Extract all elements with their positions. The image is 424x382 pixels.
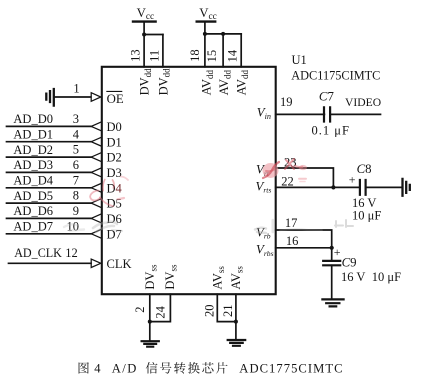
capacitor C9 (polarized) <box>331 248 333 260</box>
svg-text:OE: OE <box>107 92 124 106</box>
output arrow D7 <box>91 230 101 239</box>
ground G2 <box>142 341 159 347</box>
svg-text:C8: C8 <box>357 162 372 176</box>
wire pin 19 Vin <box>276 113 325 115</box>
svg-text:18: 18 <box>188 49 202 62</box>
figure caption <box>79 362 344 376</box>
svg-text:AVdd: AVdd <box>200 69 215 95</box>
svg-text:DVss: DVss <box>163 264 178 290</box>
junction <box>234 320 238 324</box>
svg-text:DVdd: DVdd <box>137 68 152 96</box>
svg-text:24: 24 <box>153 305 167 318</box>
svg-text:DVdd: DVdd <box>156 68 171 96</box>
svg-text:0.1 μF: 0.1 μF <box>312 124 350 138</box>
wire VCC branch to pins 15,14 <box>205 33 241 35</box>
svg-text:13: 13 <box>129 49 143 62</box>
svg-text:AD_D6: AD_D6 <box>13 204 53 218</box>
capacitor C7 <box>324 107 330 121</box>
svg-text:AD_D4: AD_D4 <box>13 174 53 188</box>
svg-text:A/D: A/D <box>112 362 138 376</box>
wire pin 20 <box>217 294 236 321</box>
junction <box>331 185 335 189</box>
svg-text:4: 4 <box>94 362 101 376</box>
output arrow D3 <box>91 168 101 177</box>
wire AD_D2 <box>7 156 92 158</box>
svg-text:9: 9 <box>73 204 79 218</box>
svg-text:D6: D6 <box>107 212 122 226</box>
output arrow D1 <box>91 137 101 146</box>
svg-text:ADC1175CIMTC: ADC1175CIMTC <box>291 69 380 83</box>
output arrow D5 <box>91 199 101 208</box>
svg-text:Vcc: Vcc <box>199 6 217 22</box>
svg-text:AD_D2: AD_D2 <box>13 143 53 157</box>
junction <box>142 33 146 37</box>
OE input buffer arrow <box>91 93 101 102</box>
ground G3 <box>228 340 246 346</box>
svg-text:7: 7 <box>73 173 79 187</box>
svg-text:Vrts: Vrts <box>256 179 272 194</box>
wire pin 18 <box>204 34 206 67</box>
svg-text:D2: D2 <box>107 151 122 165</box>
svg-text:16 V: 16 V <box>341 270 365 284</box>
wire C8 to ground <box>366 186 402 188</box>
junction <box>330 246 334 250</box>
wire C9 to ground <box>331 265 333 298</box>
wire AD_D4 <box>7 187 92 189</box>
svg-text:AVdd: AVdd <box>235 69 250 95</box>
wire pin 13 <box>143 35 145 67</box>
svg-text:D3: D3 <box>107 166 122 180</box>
svg-text:ADC1775CIMTC: ADC1775CIMTC <box>239 362 343 376</box>
svg-text:D1: D1 <box>107 135 122 149</box>
wire pin 16 Vrbs <box>276 247 332 249</box>
svg-text:20: 20 <box>202 305 216 318</box>
junction <box>148 320 152 324</box>
svg-text:C9: C9 <box>342 256 357 270</box>
wire pin1 OE <box>55 96 91 98</box>
capacitor C8 (polarized) <box>360 180 366 195</box>
wire VCC branch to pin 11 <box>144 34 163 36</box>
svg-text:8: 8 <box>73 189 79 203</box>
svg-text:6: 6 <box>73 158 79 172</box>
wire to VIDEO <box>330 113 380 115</box>
output arrow D6 <box>91 214 101 223</box>
power symbol VCC (left) <box>133 20 156 22</box>
svg-text:AVss: AVss <box>211 266 226 290</box>
svg-text:10 μF: 10 μF <box>372 270 401 284</box>
svg-text:11: 11 <box>147 50 161 62</box>
wire AD_D0 <box>7 125 92 127</box>
power symbol VCC (right) <box>197 20 216 22</box>
svg-text:D0: D0 <box>107 120 122 134</box>
ground G1 (left, rotated) <box>46 89 54 106</box>
output arrow D4 <box>91 184 101 193</box>
svg-text:16: 16 <box>286 234 299 248</box>
svg-text:VIDEO: VIDEO <box>345 96 381 109</box>
svg-text:2: 2 <box>133 306 147 312</box>
svg-text:17: 17 <box>285 216 298 230</box>
wire pin 14 <box>240 34 242 67</box>
svg-text:AVss: AVss <box>229 266 244 290</box>
svg-text:Vcc: Vcc <box>137 6 155 22</box>
wire pin 15 <box>222 34 224 67</box>
wire pin 17 Vrb <box>276 230 332 248</box>
svg-text:12: 12 <box>65 246 78 260</box>
svg-text:+: + <box>349 173 356 187</box>
svg-text:AD_D7: AD_D7 <box>13 220 53 234</box>
wire AD_D7 <box>7 233 92 235</box>
svg-text:19: 19 <box>280 95 293 109</box>
wire pin 11 <box>162 35 164 67</box>
svg-text:15: 15 <box>205 50 219 63</box>
svg-text:CLK: CLK <box>107 257 132 271</box>
svg-text:3: 3 <box>73 112 79 126</box>
wire AD_D3 <box>7 171 92 173</box>
svg-text:AD_CLK: AD_CLK <box>14 246 62 260</box>
IC U1 ADC1175CIMTC body <box>102 67 276 294</box>
wire pin 24 <box>150 294 171 321</box>
svg-text:14: 14 <box>226 49 240 62</box>
svg-text:22: 22 <box>281 175 294 189</box>
svg-text:C7: C7 <box>319 89 335 103</box>
svg-text:10 μF: 10 μF <box>352 209 381 223</box>
svg-text:4: 4 <box>73 127 80 141</box>
svg-text:+: + <box>334 245 341 259</box>
svg-text:Vin: Vin <box>257 106 271 121</box>
svg-text:AD_D0: AD_D0 <box>13 112 53 126</box>
svg-text:AD_D5: AD_D5 <box>13 189 53 203</box>
svg-text:AVdd: AVdd <box>217 69 232 95</box>
wire pin 23 Vrt <box>276 168 334 187</box>
svg-text:AD_D3: AD_D3 <box>13 158 53 172</box>
wire VCC post <box>143 22 145 35</box>
svg-text:Vrbs: Vrbs <box>256 243 274 258</box>
output arrow D2 <box>91 153 101 162</box>
svg-text:1: 1 <box>73 82 79 96</box>
junction <box>203 32 207 36</box>
wire VCC post <box>204 22 206 34</box>
ground G4 (right, rotated) <box>403 179 410 196</box>
svg-text:U1: U1 <box>292 53 307 67</box>
wire pin 2 <box>149 294 151 340</box>
CLK input buffer arrow <box>91 259 101 267</box>
wire AD_D1 <box>7 141 92 143</box>
svg-text:AD_D1: AD_D1 <box>13 128 53 142</box>
wire AD_CLK <box>9 262 92 264</box>
junction <box>221 32 225 36</box>
svg-text:21: 21 <box>221 305 235 318</box>
wire AD_D6 <box>7 217 92 219</box>
svg-text:5: 5 <box>73 143 79 157</box>
wire pin 21 <box>235 294 237 339</box>
wire pin 22 Vrts <box>276 186 360 188</box>
wire AD_D5 <box>7 202 92 204</box>
svg-text:DVss: DVss <box>143 264 158 290</box>
ground G5 <box>322 299 343 306</box>
output arrow D0 <box>91 122 101 131</box>
